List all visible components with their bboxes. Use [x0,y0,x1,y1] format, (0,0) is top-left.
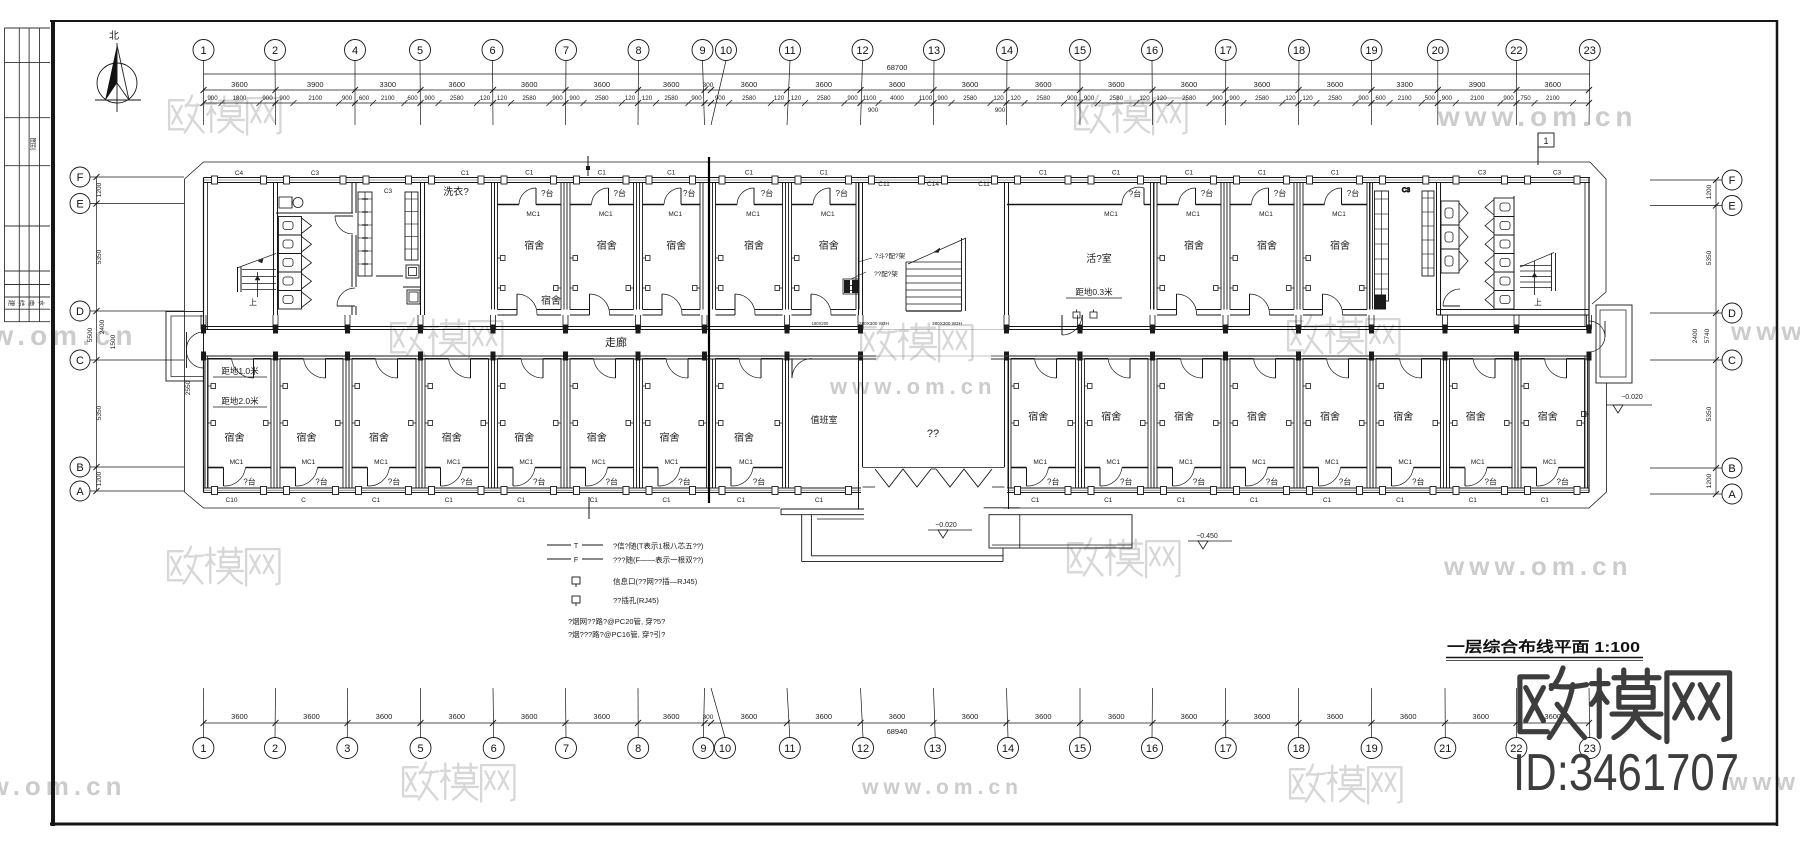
svg-text:?台: ?台 [1339,477,1351,487]
svg-text:MC1: MC1 [592,459,606,466]
svg-text:?台: ?台 [1120,477,1132,487]
svg-text:宿舍: 宿舍 [744,239,764,252]
svg-text:120: 120 [1156,95,1167,102]
svg-text:2580: 2580 [522,95,536,102]
lower dorm room 宿舍 L4 [422,359,492,505]
svg-text:电: 电 [28,300,37,307]
svg-text:900: 900 [1212,95,1223,102]
svg-text:1100: 1100 [863,95,877,102]
svg-text:C: C [76,355,84,367]
entrance hall walls [859,356,1009,509]
lower dorm room 宿舍 L1 [205,359,274,505]
svg-text:MC1: MC1 [1104,211,1118,218]
svg-text:3600: 3600 [741,712,758,721]
svg-text:3600: 3600 [962,80,979,89]
svg-text:3600: 3600 [1254,712,1271,721]
svg-text:宿舍: 宿舍 [734,431,754,444]
svg-text:MC1: MC1 [1186,211,1200,218]
svg-text:C3: C3 [384,188,393,195]
svg-text:17: 17 [1220,743,1232,755]
svg-text:19: 19 [1365,45,1377,57]
duty room 值班室 [786,359,838,505]
svg-text:14: 14 [1002,743,1014,755]
svg-text:18: 18 [1293,743,1305,755]
svg-text:宿舍: 宿舍 [1101,410,1121,423]
svg-text:www.om.cn: www.om.cn [829,374,996,399]
svg-text:?台: ?台 [1129,189,1141,199]
left grid bubbles F E D C B A [70,167,192,501]
svg-text:2550: 2550 [185,380,192,395]
svg-text:C11: C11 [978,181,990,188]
svg-text:宿舍: 宿舍 [1330,239,1350,252]
svg-text:宿舍: 宿舍 [1184,239,1204,252]
svg-text:F: F [77,172,84,184]
svg-text:3600: 3600 [1108,80,1125,89]
svg-text:2580: 2580 [1328,95,1342,102]
section flag 1 top right [1538,133,1554,165]
svg-text:宿舍: 宿舍 [1028,410,1048,423]
level mark -0.450 south [1188,533,1232,549]
svg-text:?台: ?台 [1347,188,1359,198]
right toilet entry door [1443,289,1460,306]
svg-text:C1: C1 [737,497,746,504]
window mullion blocks south wall [212,487,1581,495]
svg-text:宿舍: 宿舍 [225,431,245,444]
svg-text:900: 900 [691,95,702,102]
svg-text:3600: 3600 [1472,712,1489,721]
svg-text:宿舍: 宿舍 [1257,239,1277,252]
svg-text:C11: C11 [878,181,890,188]
svg-text:D: D [76,306,84,318]
svg-text:900: 900 [868,107,879,114]
svg-text:??插孔(RJ45): ??插孔(RJ45) [613,595,659,605]
svg-text:C1: C1 [1541,497,1550,504]
svg-text:MC1: MC1 [526,211,540,218]
svg-text:水: 水 [38,300,47,307]
svg-text:?台: ?台 [761,188,773,198]
svg-text:16: 16 [1146,45,1158,57]
svg-text:MC1: MC1 [1033,459,1047,466]
lower dorm room 宿舍 R3 [1154,359,1224,505]
lower dorm room 宿舍 L2 [277,359,346,505]
svg-text:2100: 2100 [1398,95,1412,102]
svg-text:3600: 3600 [1181,712,1198,721]
svg-text:900: 900 [1229,95,1240,102]
svg-text:C1: C1 [815,497,824,504]
lower dorm room 宿舍 L6 [567,359,637,505]
upper dorm room 宿舍 3 [640,170,704,316]
upper dorm room 宿舍 2 [567,170,637,316]
svg-text:C: C [1728,355,1736,367]
svg-text:4: 4 [352,45,358,57]
lower dorm room 宿舍 R6 [1373,359,1444,505]
left stair flight 上 [237,254,276,298]
svg-text:3600: 3600 [448,712,465,721]
svg-text:C1: C1 [525,170,534,177]
svg-text:900: 900 [424,95,435,102]
svg-text:洗衣?: 洗衣? [443,185,469,198]
stair hall walls [859,181,1009,315]
lower dorm room 宿舍 R7 [1447,359,1516,505]
big watermark 欧模网 [1520,668,1587,738]
svg-text:C1: C1 [1250,497,1259,504]
legend phone outlet [572,595,659,606]
svg-text:500: 500 [1425,95,1436,102]
svg-text:68700: 68700 [887,63,908,72]
fixture room racks [358,192,420,304]
svg-text:E: E [76,199,83,211]
svg-text:MC1: MC1 [1259,211,1273,218]
svg-text:380X300 W3H: 380X300 W3H [932,321,962,326]
section tick bottom mid [588,497,590,519]
east porch [1582,305,1633,450]
svg-text:C1: C1 [1039,170,1048,177]
lower dorm room 宿舍 R4 [1227,359,1297,505]
svg-text:距地1.0米: 距地1.0米 [221,366,259,376]
svg-text:www.om.cn: www.om.cn [0,771,127,801]
svg-text:3600: 3600 [303,712,320,721]
lower dorm room 宿舍 L3 [349,359,419,505]
corridor floor tags 距地 [213,366,267,407]
svg-text:宿舍: 宿舍 [514,431,534,444]
svg-text:宿舍: 宿舍 [1466,410,1486,423]
sheet title block strip left [5,28,51,322]
svg-text:68940: 68940 [887,727,908,736]
svg-text:6: 6 [491,743,497,755]
svg-text:12: 12 [856,45,868,57]
svg-text:1200: 1200 [1706,184,1713,199]
svg-text:900: 900 [279,95,290,102]
svg-text:MC1: MC1 [1252,459,1266,466]
svg-text:3: 3 [344,743,350,755]
svg-text:120: 120 [791,95,802,102]
svg-text:10: 10 [720,45,732,57]
svg-text:−0.020: −0.020 [1621,394,1643,401]
svg-text:www.om.cn: www.om.cn [1437,101,1638,132]
svg-text:B: B [76,462,83,474]
svg-text:2100: 2100 [1470,95,1484,102]
legend line T [547,541,704,551]
svg-text:300: 300 [703,714,714,721]
svg-text:1200: 1200 [96,471,103,486]
svg-text:活?室: 活?室 [1086,252,1112,265]
svg-text:上: 上 [249,298,257,307]
svg-text:2580: 2580 [817,95,831,102]
svg-text:www.om.cn: www.om.cn [1730,316,1800,346]
legend info outlet [572,576,698,587]
svg-text:E: E [1728,201,1735,213]
svg-text:宿舍: 宿舍 [369,431,389,444]
south porch steps [781,508,1020,562]
svg-text:1200: 1200 [96,182,103,197]
svg-text:MC1: MC1 [739,459,753,466]
svg-text:北: 北 [109,30,119,42]
svg-text:MC1: MC1 [1332,211,1346,218]
svg-text:2400: 2400 [1692,328,1699,343]
svg-text:F: F [574,557,578,564]
svg-text:宿舍: 宿舍 [442,431,462,444]
svg-text:MC1: MC1 [821,211,835,218]
svg-text:3600: 3600 [663,80,680,89]
right stair flight [1520,253,1556,296]
svg-text:900: 900 [995,107,1006,114]
svg-text:?斗?配?架: ?斗?配?架 [875,252,906,260]
svg-text:?台: ?台 [533,477,545,487]
svg-text:15: 15 [1074,743,1086,755]
svg-text:C1: C1 [1177,497,1186,504]
svg-text:A: A [1728,489,1736,501]
svg-text:宿舍: 宿舍 [819,239,839,252]
svg-text:MC1: MC1 [1398,459,1412,466]
svg-text:9: 9 [699,45,705,57]
svg-text:MC1: MC1 [668,211,682,218]
svg-text:C1: C1 [745,170,754,177]
svg-text:MC1: MC1 [1325,459,1339,466]
entrance double doors zigzag [863,468,1005,488]
svg-text:3600: 3600 [593,80,610,89]
svg-text:??: ?? [927,428,939,440]
svg-text:900: 900 [1442,95,1453,102]
lower dorm room 宿舍 R2 [1082,359,1152,505]
svg-text:?烟???路?@PC16管, 穿?引?: ?烟???路?@PC16管, 穿?引? [568,629,665,639]
svg-text:C3: C3 [1553,170,1562,177]
svg-text:120: 120 [625,95,636,102]
svg-text:2580: 2580 [1109,95,1123,102]
window mullion blocks north wall [212,176,1581,184]
svg-text:1: 1 [200,45,206,57]
svg-text:5: 5 [417,45,423,57]
svg-text:走廊: 走廊 [605,335,627,349]
svg-text:3600: 3600 [448,80,465,89]
svg-text:120: 120 [497,95,508,102]
svg-text:?台: ?台 [1412,477,1424,487]
svg-text:900: 900 [1358,95,1369,102]
svg-text:13: 13 [928,45,940,57]
left toilet room walls [276,183,356,316]
corridor partition stubs at grids [201,315,1592,330]
svg-text:900: 900 [1084,95,1095,102]
svg-text:宿舍: 宿舍 [1174,410,1194,423]
svg-text:C1: C1 [598,170,607,177]
svg-text:C1: C1 [461,170,470,177]
section tick top mid [586,156,590,176]
svg-text:5350: 5350 [96,405,103,420]
svg-text:12: 12 [857,743,869,755]
top grid bubbles and dimension lines [193,40,1600,126]
svg-text:C1: C1 [1323,497,1332,504]
right toilet stalls right column [1485,196,1514,309]
svg-text:5: 5 [417,743,423,755]
svg-text:信息口(??网??插—RJ45): 信息口(??网??插—RJ45) [613,576,698,586]
toilet WC fixture top [279,197,303,208]
svg-text:一层综合布线平面 1:100: 一层综合布线平面 1:100 [1447,638,1640,656]
upper dorm room 宿舍 4 [713,170,786,316]
svg-text:8: 8 [635,45,641,57]
bottom grid bubbles and dimension line [193,688,1600,759]
svg-text:13: 13 [929,743,941,755]
svg-text:120: 120 [480,95,491,102]
distribution boxes [843,252,906,294]
svg-text:3600: 3600 [1327,712,1344,721]
top dimension texts row2 [207,95,1576,114]
svg-text:?台: ?台 [1201,188,1213,198]
svg-text:120: 120 [642,95,653,102]
svg-text:宿舍: 宿舍 [1538,410,1558,423]
svg-text:3600: 3600 [521,712,538,721]
washroom right wall grid6 [492,183,495,310]
svg-text:宿舍: 宿舍 [597,239,617,252]
svg-text:180X200: 180X200 [812,321,829,326]
svg-text:C1: C1 [1396,497,1405,504]
svg-text:20: 20 [1432,45,1444,57]
svg-text:1500: 1500 [110,334,117,349]
svg-text:3600: 3600 [1035,712,1052,721]
level mark -0.020 south [928,522,972,538]
svg-text:2580: 2580 [595,95,609,102]
svg-text:23: 23 [1584,45,1596,57]
svg-text:C1: C1 [445,497,454,504]
svg-text:?台: ?台 [1557,477,1569,487]
svg-text:MC1: MC1 [599,211,613,218]
svg-text:C1: C1 [372,497,381,504]
svg-text:7: 7 [563,743,569,755]
svg-text:2100: 2100 [381,95,395,102]
svg-text:2100: 2100 [1546,95,1560,102]
svg-text:B: B [1728,463,1735,475]
svg-text:5350: 5350 [96,249,103,264]
svg-text:C1: C1 [1104,497,1113,504]
svg-text:19: 19 [1365,743,1377,755]
svg-text:距地2.0米: 距地2.0米 [221,396,259,406]
svg-text:?台: ?台 [614,188,626,198]
svg-text:C14: C14 [927,181,939,188]
svg-text:?台: ?台 [388,477,400,487]
svg-text:C3: C3 [311,170,320,177]
hall corridor jambs [861,356,1007,359]
svg-text:9: 9 [700,743,706,755]
svg-text:750: 750 [1520,95,1531,102]
svg-text:D: D [1728,308,1736,320]
svg-text:?烟网??路?@PC20管, 穿?5?: ?烟网??路?@PC20管, 穿?5? [568,616,665,626]
svg-text:3600: 3600 [889,712,906,721]
svg-text:3600: 3600 [815,80,832,89]
svg-text:?台: ?台 [678,477,690,487]
svg-text:MC1: MC1 [746,211,760,218]
svg-text:1: 1 [200,743,206,755]
svg-text:??配?架: ??配?架 [874,270,898,278]
svg-text:A: A [76,486,84,498]
svg-text:900: 900 [569,95,580,102]
svg-text:1100: 1100 [919,95,933,102]
svg-text:300: 300 [703,82,714,89]
svg-text:6: 6 [489,45,495,57]
svg-text:900: 900 [1067,95,1078,102]
svg-text:MC1: MC1 [1106,459,1120,466]
svg-text:600: 600 [1375,95,1386,102]
svg-text:宿舍: 宿舍 [524,239,544,252]
left stair room walls [274,183,278,316]
svg-text:3600: 3600 [741,80,758,89]
svg-text:上: 上 [1534,298,1542,307]
svg-text:C3: C3 [1402,187,1411,194]
svg-text:2: 2 [272,743,278,755]
svg-text:900: 900 [1503,95,1514,102]
svg-text:C1: C1 [1331,170,1340,177]
svg-text:17: 17 [1220,45,1232,57]
svg-text:3300: 3300 [379,80,396,89]
svg-text:2580: 2580 [742,95,756,102]
right toilet stalls left column [1441,201,1468,273]
expansion joint line grid9/10 [708,157,710,503]
level mark -0.020 east [1606,394,1652,413]
svg-text:120: 120 [1285,95,1296,102]
svg-text:宿舍: 宿舍 [541,294,561,307]
svg-text:C10: C10 [226,497,238,504]
svg-text:C1: C1 [590,497,599,504]
lower dorm room 宿舍 R1 [1008,359,1079,505]
svg-text:120: 120 [1010,95,1021,102]
svg-text:3600: 3600 [663,712,680,721]
svg-text:3600: 3600 [521,80,538,89]
svg-text:?信?随(T表示1根八芯五??): ?信?随(T表示1根八芯五??) [613,541,704,551]
svg-text:4000: 4000 [890,95,904,102]
svg-text:MC1: MC1 [1471,459,1485,466]
north arrow [95,30,141,112]
svg-text:?台: ?台 [1274,188,1286,198]
right grid bubbles F E D C B A [1650,170,1742,504]
svg-text:MC1: MC1 [1543,459,1557,466]
svg-text:?台: ?台 [243,477,255,487]
svg-text:2580: 2580 [450,95,464,102]
svg-text:3600: 3600 [231,80,248,89]
lower dorm room 宿舍 R8 [1518,359,1588,505]
svg-text:?台: ?台 [1266,477,1278,487]
svg-text:3600: 3600 [1254,80,1271,89]
svg-text:900: 900 [262,95,273,102]
svg-text:3600: 3600 [1035,80,1052,89]
building parapet outline [185,162,1607,508]
west porch [166,312,204,382]
svg-text:3600: 3600 [376,712,393,721]
svg-text:宿舍: 宿舍 [297,431,317,444]
utility room racks right [1370,183,1435,310]
svg-text:10: 10 [719,743,731,755]
corridor column marks [201,325,1592,361]
upper dorm room 宿舍 8 [1300,170,1370,316]
svg-text:?台: ?台 [683,188,695,198]
north exterior wall with windows [204,178,1591,183]
svg-text:900: 900 [715,95,726,102]
legend note lines [568,616,665,639]
top dimension texts row1 [201,80,1593,106]
south platform right [989,515,1132,548]
svg-text:3600: 3600 [1327,80,1344,89]
svg-text:2100: 2100 [308,95,322,102]
svg-text:16: 16 [1146,743,1158,755]
svg-text:?台: ?台 [461,477,473,487]
svg-text:5500: 5500 [87,327,94,342]
lower dorm room 宿舍 L8 [713,359,786,505]
svg-text:C1: C1 [1185,170,1194,177]
svg-text:600: 600 [359,95,370,102]
svg-text:2400: 2400 [99,319,106,334]
svg-text:C: C [301,497,306,504]
drawing title 一层综合布线平面 1:100 [1446,638,1643,661]
svg-text:宿舍: 宿舍 [1247,410,1267,423]
south exterior wall with windows [204,488,1590,493]
left toilet stalls [279,217,312,310]
svg-text:C4: C4 [235,170,244,177]
